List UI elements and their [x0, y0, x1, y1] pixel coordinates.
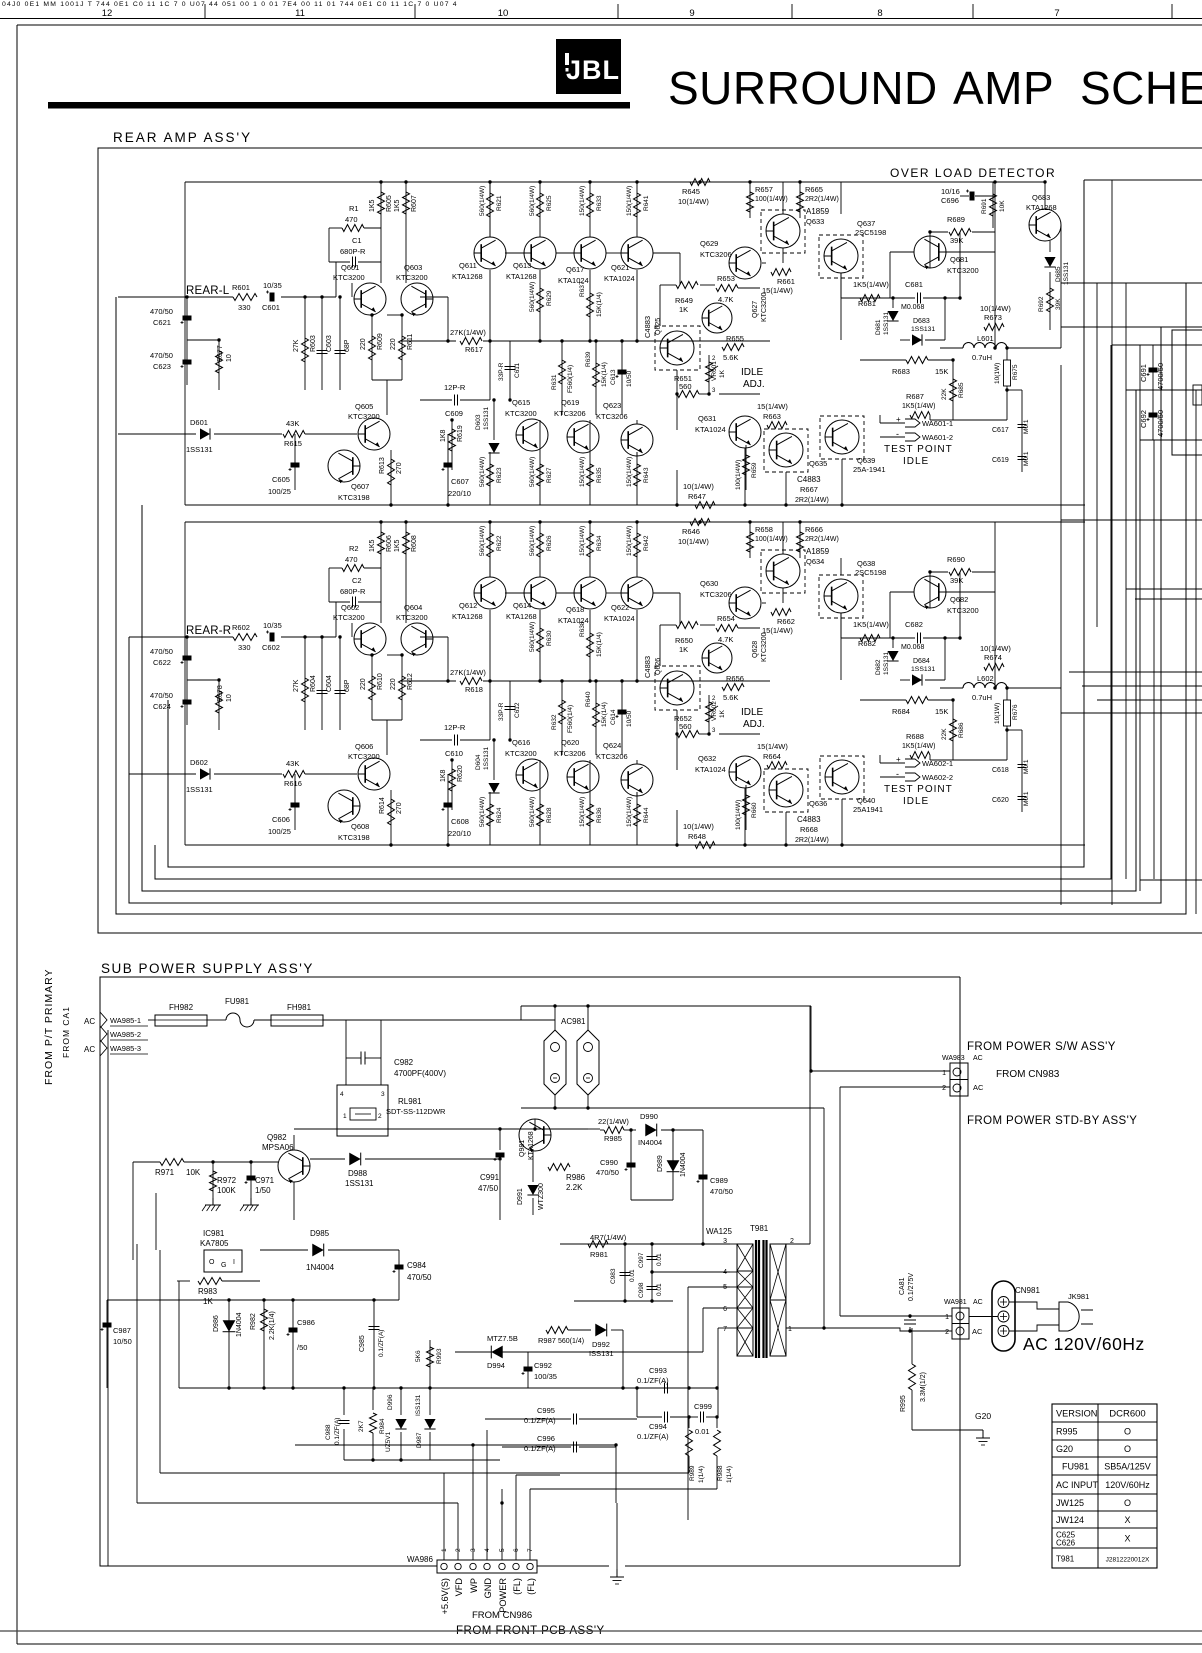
svg-text:C614: C614 — [610, 709, 617, 725]
diode D681 1SS131 — [892, 298, 894, 308]
svg-text:WA985-3: WA985-3 — [110, 1044, 141, 1053]
transistor Q613 KTA1268 — [524, 237, 556, 269]
svg-text:AC: AC — [84, 1017, 95, 1026]
svg-text:FROM P/T PRIMARY: FROM P/T PRIMARY — [43, 968, 55, 1085]
resistor R972 100K — [212, 1162, 214, 1200]
svg-text:Q635: Q635 — [809, 459, 827, 468]
svg-text:R972: R972 — [217, 1176, 237, 1185]
svg-text:Q633: Q633 — [806, 217, 824, 226]
transistor Q626 C4883 power — [655, 666, 700, 710]
svg-text:KTC3206: KTC3206 — [554, 749, 586, 758]
wire loop 2 — [129, 327, 1161, 903]
svg-text:JW124: JW124 — [1056, 1515, 1084, 1525]
svg-text:Q603: Q603 — [404, 263, 422, 272]
svg-text:R658: R658 — [755, 525, 773, 534]
svg-text:43K: 43K — [286, 419, 299, 428]
svg-text:10/50: 10/50 — [626, 370, 633, 387]
svg-text:Q616: Q616 — [512, 738, 530, 747]
svg-text:R691: R691 — [981, 198, 988, 214]
svg-text:C990: C990 — [600, 1158, 618, 1167]
capacitor C989 470/50 — [702, 1130, 704, 1244]
svg-text:C609: C609 — [445, 409, 463, 418]
capacitor C2 680P-R — [352, 597, 354, 608]
resistor R631 F560(1/4) — [561, 341, 563, 415]
svg-text:FROM POWER S/W ASS'Y: FROM POWER S/W ASS'Y — [967, 1041, 1116, 1053]
svg-text:1(1/4): 1(1/4) — [698, 1466, 705, 1483]
svg-text:R602: R602 — [232, 623, 250, 632]
resistor R651 560 — [677, 391, 699, 398]
capacitor C692 — [1149, 413, 1158, 418]
transistor Q634 A1859 power — [761, 550, 805, 593]
svg-text:27K(1/4W): 27K(1/4W) — [450, 668, 486, 677]
svg-text:M0.1: M0.1 — [1023, 451, 1030, 466]
svg-text:560(1/4): 560(1/4) — [558, 1338, 584, 1345]
transistor Q615 KTC3200 — [516, 419, 548, 451]
svg-text:1: 1 — [945, 1314, 949, 1321]
svg-text:KTA1268: KTA1268 — [506, 612, 537, 621]
svg-text:220/10: 220/10 — [448, 829, 471, 838]
svg-text:2R2(1/4W): 2R2(1/4W) — [805, 196, 839, 203]
svg-text:39K: 39K — [950, 576, 963, 585]
svg-text:-: - — [896, 429, 899, 439]
svg-text:CN981: CN981 — [1015, 1286, 1040, 1295]
svg-text:1K: 1K — [679, 305, 688, 314]
transistor Q628 KTC3200 — [702, 643, 732, 673]
resistor R621 560(1/4W) — [489, 182, 491, 237]
transistor Q633 A1859 power — [761, 210, 805, 253]
resistor R627 560(1/4W) — [539, 452, 541, 505]
svg-text:R627: R627 — [546, 467, 553, 483]
svg-text:R601: R601 — [232, 283, 250, 292]
resistor R633 150(1/4W) — [589, 182, 591, 237]
svg-text:R640: R640 — [585, 691, 592, 707]
svg-text:R667: R667 — [800, 485, 818, 494]
resistor R989 1(1/4) — [688, 1417, 690, 1428]
capacitor C620 M0.1 — [1021, 790, 1023, 812]
svg-text:1SS131: 1SS131 — [483, 746, 490, 770]
svg-text:KTC3200: KTC3200 — [761, 292, 768, 322]
svg-text:KTA1268: KTA1268 — [1026, 203, 1057, 212]
AC top rail to WA983 — [521, 1005, 811, 1007]
resistor R640 15K(1/4) — [595, 681, 597, 755]
svg-text:KTA1268: KTA1268 — [452, 272, 483, 281]
capacitor C971 1/50 — [250, 1162, 252, 1200]
resistor R988 1(1/4) — [716, 1417, 718, 1428]
transistor Q607 KTC3198 — [328, 450, 360, 482]
svg-text:1K5: 1K5 — [394, 539, 401, 552]
transistor Q624 KTC3206 — [621, 764, 653, 796]
resistor R685 22K — [952, 360, 954, 420]
svg-text:2R2(1/4W): 2R2(1/4W) — [805, 536, 839, 543]
transistor Q621 KTA1024 — [621, 237, 653, 269]
zener D991 MTZ300 — [527, 1185, 538, 1195]
right bus exit wires — [1061, 282, 1202, 284]
transistor Q622 KTA1024 — [621, 577, 653, 609]
svg-text:R655: R655 — [726, 334, 744, 343]
svg-text:R612: R612 — [407, 673, 414, 690]
svg-text:R611: R611 — [407, 334, 414, 350]
capacitor C617 M0.1 — [1021, 408, 1023, 444]
svg-text:560(1/4W): 560(1/4W) — [529, 797, 536, 827]
svg-text:R678: R678 — [217, 685, 224, 702]
resistor R995 3.3M(1/2) — [911, 1328, 913, 1364]
svg-text:5: 5 — [723, 1284, 727, 1291]
svg-text:KTC3200: KTC3200 — [348, 752, 380, 761]
svg-text:120V/60Hz: 120V/60Hz — [1105, 1480, 1150, 1490]
svg-text:C993: C993 — [649, 1366, 667, 1375]
transistor Q630 KTC3206 — [729, 587, 761, 619]
svg-text:KTC3200: KTC3200 — [761, 632, 768, 662]
svg-text:25A1941: 25A1941 — [853, 805, 883, 814]
svg-text:4: 4 — [723, 1269, 727, 1276]
svg-text:C984: C984 — [407, 1261, 427, 1270]
svg-text:CA81: CA81 — [899, 1277, 906, 1295]
capacitor C990 470/50 — [630, 1130, 632, 1200]
svg-text:470/50: 470/50 — [596, 1168, 619, 1177]
svg-text:15(1/4W): 15(1/4W) — [757, 742, 788, 751]
capacitor C601 10/35 — [270, 293, 275, 302]
resistor R639 15K(1/4) — [595, 341, 597, 415]
svg-text:150(1/4W): 150(1/4W) — [626, 457, 633, 487]
svg-text:470/50: 470/50 — [150, 647, 173, 656]
rail pin4 1272 — [652, 1271, 730, 1273]
svg-text:R637: R637 — [579, 281, 586, 297]
svg-text:R665: R665 — [805, 185, 823, 194]
svg-text:C995: C995 — [537, 1406, 555, 1415]
svg-text:R618: R618 — [465, 685, 483, 694]
svg-text:KTC3200: KTC3200 — [947, 606, 979, 615]
svg-text:04J0 0E1 MM 1001J T 744 0E1 C0: 04J0 0E1 MM 1001J T 744 0E1 C0 11 1C 7 0… — [2, 1, 458, 8]
resistor R605 1K5 — [380, 182, 382, 283]
svg-text:1SS131: 1SS131 — [345, 1179, 374, 1188]
svg-text:43K: 43K — [286, 759, 299, 768]
svg-text:D994: D994 — [487, 1361, 505, 1370]
svg-text:1(1/4): 1(1/4) — [726, 1466, 733, 1483]
resistor R643 150(1/4W) — [636, 452, 638, 505]
svg-text:R1: R1 — [349, 204, 359, 213]
svg-text:Q612: Q612 — [459, 601, 477, 610]
svg-text:C623: C623 — [153, 362, 171, 371]
svg-text:470: 470 — [345, 555, 358, 564]
svg-text:10(1W): 10(1W) — [994, 703, 1001, 724]
svg-text:R971: R971 — [155, 1168, 175, 1177]
svg-text:IDLE: IDLE — [903, 796, 929, 807]
svg-text:C989: C989 — [710, 1176, 728, 1185]
svg-text:R660: R660 — [751, 802, 758, 818]
resistor R607 1K5 — [405, 182, 407, 283]
svg-text:C971: C971 — [255, 1176, 275, 1185]
svg-text:KTC3200: KTC3200 — [505, 749, 537, 758]
svg-text:T981: T981 — [1056, 1555, 1075, 1564]
wire loop 1 — [116, 283, 1186, 914]
svg-text:C982: C982 — [394, 1058, 414, 1067]
diode D992 ISS131 — [595, 1324, 606, 1337]
svg-text:KTA1268: KTA1268 — [452, 612, 483, 621]
channel rail top REAR-L — [185, 181, 995, 183]
svg-text:R662: R662 — [777, 617, 795, 626]
svg-text:2K7: 2K7 — [358, 1420, 365, 1432]
secondary pin2 wire up — [809, 1006, 811, 1244]
svg-text:WA601-2: WA601-2 — [922, 433, 953, 442]
signal ground below box — [616, 1503, 618, 1573]
svg-text:M0.1: M0.1 — [1023, 759, 1030, 774]
svg-text:KTC3200: KTC3200 — [947, 266, 979, 275]
svg-text:10(1/4W): 10(1/4W) — [980, 644, 1011, 653]
svg-text:D683: D683 — [913, 318, 930, 325]
svg-text:0.1/ZF(A): 0.1/ZF(A) — [637, 1432, 669, 1441]
svg-text:L601: L601 — [977, 334, 994, 343]
input wire REAR-R — [129, 636, 233, 638]
transistor Q632 KTA1024 — [729, 756, 761, 788]
svg-text:C626: C626 — [1056, 1539, 1076, 1548]
svg-text:Q632: Q632 — [698, 754, 716, 763]
svg-text:2SC5198: 2SC5198 — [855, 568, 886, 577]
svg-text:25A-1941: 25A-1941 — [853, 465, 886, 474]
svg-text:R987: R987 — [538, 1336, 556, 1345]
rail 1460 — [344, 1459, 430, 1461]
svg-text:KTC3206: KTC3206 — [700, 250, 732, 259]
transistor Q608 KTC3198 — [328, 790, 360, 822]
resistor R610 220 — [371, 655, 373, 720]
svg-text:22K: 22K — [941, 728, 948, 740]
svg-text:R629: R629 — [546, 290, 553, 306]
capacitor C604 — [321, 637, 323, 730]
resistor R609 220 — [371, 315, 373, 380]
svg-text:KTA1024: KTA1024 — [604, 614, 635, 623]
svg-text:Q630: Q630 — [700, 579, 718, 588]
capacitor C986 /50 — [292, 1300, 294, 1388]
capacitor C992 100/35 — [527, 1352, 529, 1388]
svg-text:AC: AC — [973, 1055, 983, 1062]
svg-text:4700PF(400V): 4700PF(400V) — [394, 1069, 446, 1078]
svg-text:1SS131: 1SS131 — [911, 666, 935, 673]
svg-text:R644: R644 — [643, 807, 650, 823]
svg-text:R632: R632 — [551, 714, 558, 730]
svg-text:C998: C998 — [638, 1282, 645, 1298]
wire loop 5 — [168, 180, 1084, 867]
svg-text:15K: 15K — [935, 707, 948, 716]
svg-text:R623: R623 — [496, 467, 503, 483]
svg-text:150(1/4W): 150(1/4W) — [579, 186, 586, 216]
svg-text:O: O — [1124, 1444, 1131, 1454]
rail 1301 — [574, 1300, 673, 1302]
resistor R692 39K — [1049, 272, 1051, 330]
svg-text:12: 12 — [102, 8, 113, 19]
svg-text:Q606: Q606 — [355, 742, 373, 751]
resistor R623 560(1/4W) — [489, 452, 491, 505]
resistor R636 150(1/4W) — [589, 792, 591, 845]
svg-text:10(1/4W): 10(1/4W) — [678, 537, 709, 546]
svg-text:Q620: Q620 — [561, 738, 579, 747]
svg-text:C610: C610 — [445, 749, 463, 758]
WA981 wiring — [840, 1315, 952, 1317]
svg-text:WA125: WA125 — [706, 1227, 732, 1236]
svg-text:R650: R650 — [675, 636, 693, 645]
svg-text:R981: R981 — [590, 1250, 608, 1259]
svg-text:C605: C605 — [272, 475, 290, 484]
transformer T981 secondary winding — [770, 1244, 786, 1300]
svg-text:68P: 68P — [344, 679, 351, 692]
svg-text:2R2(1/4W): 2R2(1/4W) — [795, 837, 829, 844]
svg-text:R984: R984 — [379, 1418, 386, 1434]
svg-text:O: O — [209, 1259, 215, 1266]
transistor Q625 C4883 power — [655, 326, 700, 370]
resistor R676 10(1W) — [1006, 688, 1008, 740]
transistor Q612 KTA1268 — [474, 577, 506, 609]
transistor Q627 KTC3200 — [702, 303, 732, 333]
svg-text:100/25: 100/25 — [268, 827, 291, 836]
resistor R1 470 — [342, 225, 364, 232]
svg-text:Q622: Q622 — [611, 603, 629, 612]
svg-text:2R2(1/4W): 2R2(1/4W) — [795, 497, 829, 504]
svg-text:560(1/4W): 560(1/4W) — [479, 797, 486, 827]
svg-text:Q604: Q604 — [404, 603, 422, 612]
svg-text:27K: 27K — [293, 679, 300, 692]
resistor R611 220 — [401, 315, 403, 380]
svg-text:Q619: Q619 — [561, 398, 579, 407]
resistor R617 27K(1/4W) — [400, 340, 456, 342]
resistor R653 4.7K — [716, 285, 738, 292]
transistor Q635 power — [764, 429, 808, 472]
capacitor C988 0.1/ZF(A) — [343, 1388, 345, 1415]
svg-text:R689: R689 — [947, 215, 965, 224]
resistor R683 15K — [906, 357, 928, 364]
resistor R677 10 — [218, 340, 220, 390]
transistor Q611 KTA1268 — [474, 237, 506, 269]
svg-text:R989: R989 — [689, 1465, 696, 1481]
svg-text:AC: AC — [84, 1045, 95, 1054]
svg-text:R663: R663 — [763, 412, 781, 421]
diode D601 1SS131 — [118, 433, 196, 435]
svg-text:R620: R620 — [457, 765, 464, 782]
capacitor C994 0.1/ZF(A) — [664, 1412, 666, 1423]
svg-text:10K: 10K — [999, 200, 1006, 212]
svg-text:C621: C621 — [153, 318, 171, 327]
diode D603 1SS131 — [493, 400, 495, 440]
svg-text:C988: C988 — [325, 1424, 332, 1440]
svg-text:C612: C612 — [514, 702, 521, 718]
capacitor 68P C604b — [339, 637, 341, 730]
svg-text:R617: R617 — [465, 345, 483, 354]
svg-text:-: - — [896, 769, 899, 779]
transistor Q640 25A-1941 power — [820, 756, 864, 799]
transistor Q606 KTC3200 — [358, 758, 390, 790]
svg-text:C601: C601 — [262, 303, 280, 312]
svg-text:0.7uH: 0.7uH — [972, 693, 992, 702]
svg-text:D601: D601 — [190, 418, 208, 427]
capacitor C998 0.01 — [651, 1272, 653, 1301]
capacitor C606 100/25 — [294, 774, 296, 830]
svg-text:R645: R645 — [682, 187, 700, 196]
svg-text:R995: R995 — [900, 1395, 907, 1412]
svg-text:5.6K: 5.6K — [723, 353, 738, 362]
svg-text:R685: R685 — [958, 382, 965, 398]
svg-text:R659: R659 — [751, 462, 758, 478]
svg-text:R661: R661 — [777, 277, 795, 286]
svg-text:270: 270 — [396, 462, 403, 474]
svg-text:0.1/275V: 0.1/275V — [908, 1273, 915, 1301]
svg-text:150(1/4W): 150(1/4W) — [626, 526, 633, 556]
svg-text:R628: R628 — [546, 807, 553, 823]
svg-text:WA985-1: WA985-1 — [110, 1016, 141, 1025]
svg-text:9: 9 — [689, 8, 694, 19]
diode D604 1SS131 — [493, 740, 495, 780]
svg-text:R641: R641 — [643, 195, 650, 211]
svg-text:WTZ300: WTZ300 — [538, 1183, 545, 1210]
svg-text:R605: R605 — [386, 195, 393, 212]
resistor R987 560(1/4) — [546, 1327, 568, 1334]
svg-text:KTC3200: KTC3200 — [396, 273, 428, 282]
resistor R622 560(1/4W) — [489, 522, 491, 577]
svg-text:560(1/4W): 560(1/4W) — [529, 526, 536, 556]
resistor R649 1K — [676, 282, 698, 289]
svg-text:Q981: Q981 — [519, 1140, 526, 1157]
svg-text:R664: R664 — [763, 752, 781, 761]
svg-text:D985: D985 — [310, 1229, 330, 1238]
svg-text:T981: T981 — [750, 1224, 769, 1233]
diode D986 1N4004 — [228, 1300, 230, 1388]
svg-text:1K8: 1K8 — [440, 429, 447, 442]
svg-text:C622: C622 — [153, 658, 171, 667]
svg-text:1K: 1K — [719, 369, 726, 378]
svg-text:10(1/4W): 10(1/4W) — [683, 482, 714, 491]
svg-text:10/50: 10/50 — [113, 1337, 132, 1346]
svg-text:REAR AMP ASS'Y: REAR AMP ASS'Y — [113, 130, 252, 145]
svg-text:4700/50: 4700/50 — [1156, 410, 1165, 437]
svg-text:F560(1/4): F560(1/4) — [567, 365, 574, 393]
svg-text:10/50: 10/50 — [626, 710, 633, 727]
svg-text:(FL): (FL) — [526, 1578, 536, 1595]
svg-text:C4883: C4883 — [797, 475, 821, 484]
svg-text:R686: R686 — [958, 722, 965, 738]
svg-text:VFD: VFD — [454, 1578, 464, 1597]
svg-text:1SS131: 1SS131 — [483, 406, 490, 430]
svg-text:SCHE: SCHE — [1080, 62, 1202, 114]
svg-text:C607: C607 — [451, 477, 469, 486]
svg-text:IC981: IC981 — [203, 1229, 225, 1238]
svg-text:C985: C985 — [359, 1335, 366, 1352]
svg-text:1K: 1K — [203, 1297, 213, 1306]
svg-text:C619: C619 — [992, 457, 1009, 464]
svg-text:R690: R690 — [947, 555, 965, 564]
svg-text:REAR-R: REAR-R — [186, 625, 231, 637]
transistor Q636 power — [764, 769, 808, 812]
transistor Q639 25A-1941 power — [820, 416, 864, 459]
svg-text:G: G — [221, 1262, 226, 1269]
svg-text:C613: C613 — [610, 369, 617, 385]
svg-text:R619: R619 — [457, 425, 464, 442]
capacitor C612 33P-R — [509, 681, 511, 740]
svg-text:F560(1/4): F560(1/4) — [567, 705, 574, 733]
svg-text:C4883: C4883 — [643, 656, 652, 678]
svg-text:R621: R621 — [496, 195, 503, 211]
svg-text:AC INPUT: AC INPUT — [1056, 1480, 1099, 1490]
capacitor C623 470/50 — [183, 360, 192, 365]
capacitor C691 — [1152, 345, 1154, 440]
title underline bar — [48, 102, 630, 109]
svg-text:KTA1024: KTA1024 — [695, 765, 726, 774]
svg-text:100/25: 100/25 — [268, 487, 291, 496]
svg-text:1K5(1/4W): 1K5(1/4W) — [902, 743, 935, 750]
svg-text:2: 2 — [455, 1548, 462, 1552]
svg-text:JW125: JW125 — [1056, 1498, 1084, 1508]
svg-text:C2: C2 — [352, 576, 362, 585]
svg-text:560(1/4W): 560(1/4W) — [529, 186, 536, 216]
resistor R615 43K — [283, 431, 305, 438]
transistor Q601 KTC3200 — [354, 283, 386, 315]
svg-text:OVER LOAD DETECTOR: OVER LOAD DETECTOR — [890, 166, 1056, 180]
transistor Q605 KTC3200 — [358, 418, 390, 450]
